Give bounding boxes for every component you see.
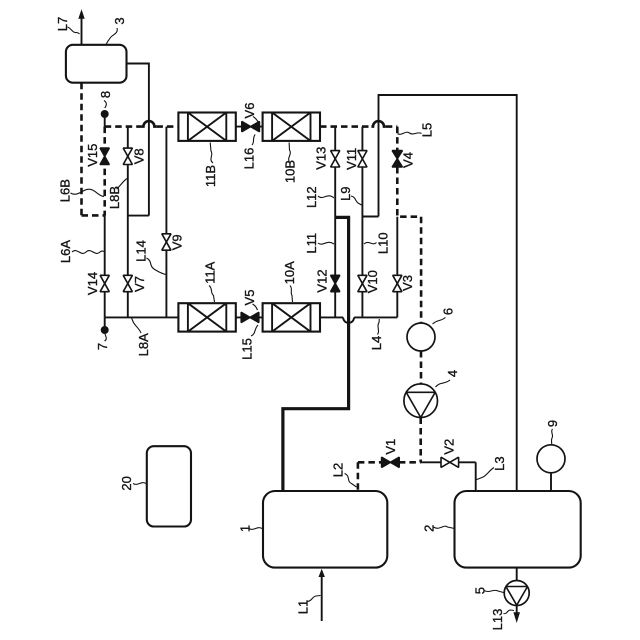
svg-text:L6B: L6B <box>57 179 72 202</box>
label L4 <box>369 319 384 350</box>
label 3 <box>106 17 127 44</box>
svg-text:V10: V10 <box>365 270 380 293</box>
heat exchanger 11A <box>178 303 235 331</box>
label V6 <box>242 103 259 123</box>
arrow L7 out of tank 3 <box>78 9 84 45</box>
wire L3 solid through V2 into tank 2 <box>421 462 476 491</box>
label L1 <box>296 596 321 615</box>
valve V10 (open) <box>358 275 367 291</box>
sensor 9 and stub into tank 2 <box>537 445 565 491</box>
label L3 <box>476 456 508 480</box>
arrow L1 into tank 1 bottom <box>319 569 325 621</box>
svg-text:4: 4 <box>445 370 460 377</box>
heat exchanger 11B <box>178 113 235 141</box>
label L6B <box>57 179 104 202</box>
svg-text:V4: V4 <box>401 152 416 168</box>
svg-text:L1: L1 <box>296 600 311 614</box>
svg-text:L8A: L8A <box>136 333 151 356</box>
label L13 <box>490 609 514 631</box>
valve V5 (closed) <box>241 312 259 322</box>
label L6A <box>58 240 104 263</box>
svg-text:9: 9 <box>545 420 560 427</box>
svg-text:11A: 11A <box>203 261 218 283</box>
valve V15 (closed) <box>100 148 109 164</box>
valve V12 (closed) <box>331 275 340 291</box>
wire L11 through V12 <box>334 217 336 317</box>
svg-text:L14: L14 <box>134 240 149 262</box>
label L5 <box>398 123 435 137</box>
svg-text:L3: L3 <box>492 456 507 470</box>
svg-text:L10: L10 <box>376 232 391 254</box>
svg-text:V13: V13 <box>314 147 329 170</box>
wire L5 dashed header from 10B with hop over tank-2 riser <box>320 125 371 128</box>
valve V8 (open) <box>123 148 132 164</box>
valve V14 (open) <box>100 275 109 291</box>
wire L6B dashed: tank3 bottom, down, right <box>82 83 105 216</box>
tank 2 <box>455 491 581 568</box>
node 7 stub and dot <box>104 317 106 328</box>
wire 11A to V5 to 10A <box>236 316 263 318</box>
label L7 <box>55 17 79 34</box>
label 4 <box>436 370 460 387</box>
svg-text:V6: V6 <box>242 103 257 119</box>
label 5 <box>472 587 503 594</box>
wire L12 through V13 <box>334 127 336 218</box>
wire L6A solid through V14 down to row-2 header <box>104 216 106 318</box>
wire L4: 10A to V3 riser with hop over thick pipe <box>320 316 343 318</box>
svg-text:3: 3 <box>112 17 127 24</box>
svg-text:20: 20 <box>119 476 134 490</box>
label V5 <box>242 290 258 310</box>
pump 5 under tank 2 <box>504 568 529 606</box>
label 1 <box>238 525 263 532</box>
svg-text:L11: L11 <box>304 233 319 254</box>
wire dashed pump 4 down to L2 header <box>419 418 422 463</box>
svg-text:2: 2 <box>422 525 437 532</box>
valve V9 (open) <box>162 234 171 250</box>
label L14 <box>134 240 166 274</box>
tank 1 <box>263 491 387 568</box>
svg-text:V14: V14 <box>85 272 100 295</box>
svg-text:V15: V15 <box>85 144 100 167</box>
svg-text:L4: L4 <box>369 336 384 350</box>
label 11A <box>203 261 218 302</box>
label 9 <box>545 420 560 445</box>
valve V2 (open) <box>441 457 459 467</box>
svg-text:V5: V5 <box>242 290 257 306</box>
wire L8B link to tank-3 riser <box>128 215 149 217</box>
label L10 <box>364 232 391 254</box>
wire L6B dashed through V15 <box>103 127 106 216</box>
label L16 <box>242 135 257 170</box>
valve V11 (open) <box>358 151 367 167</box>
label 7 <box>95 334 110 350</box>
label 10A <box>282 261 297 302</box>
svg-text:L12: L12 <box>304 186 319 208</box>
valve V6 (closed) <box>242 122 260 132</box>
wire L8B/L8A through V8 and V7 <box>127 127 129 318</box>
svg-text:6: 6 <box>441 308 456 315</box>
svg-text:V9: V9 <box>169 234 184 250</box>
wire L5 dashed through V4 down and over to flow meter 6 <box>397 167 421 323</box>
arrow L13 out of pump 5 <box>513 606 520 624</box>
label L2 <box>331 463 357 487</box>
pump 4 <box>404 384 438 418</box>
svg-text:L13: L13 <box>490 609 505 631</box>
svg-text:11B: 11B <box>203 165 218 187</box>
svg-text:L6A: L6A <box>58 240 73 263</box>
svg-text:L15: L15 <box>240 338 255 360</box>
valve V13 (open) <box>331 151 340 167</box>
wire dashed meter 6 to pump 4 <box>420 351 423 384</box>
node 8 stub and dot <box>104 112 106 127</box>
heat exchanger 10A <box>263 303 320 331</box>
label L11 <box>304 233 334 254</box>
valve V4 (closed) <box>392 151 402 167</box>
label 2 <box>422 525 455 532</box>
svg-text:L5: L5 <box>420 123 435 137</box>
wire row-1 dashed header from node 8 to 11B with hop over riser <box>105 125 142 128</box>
wire L14 through V9 <box>165 127 167 318</box>
valve V7 (open) <box>123 275 132 291</box>
wire L9 through V11 <box>361 127 363 217</box>
svg-text:V3: V3 <box>400 275 415 291</box>
tank 3 <box>66 45 127 83</box>
label 11B <box>203 143 218 188</box>
label 6 <box>433 308 456 324</box>
wire L10 through V10 <box>361 217 363 318</box>
svg-text:L7: L7 <box>55 17 70 31</box>
wire link V11/V10 junction to tank-2 riser <box>362 216 378 218</box>
svg-text:V1: V1 <box>383 439 398 455</box>
wire from tank 3 right side down (to L8B link) <box>127 64 149 216</box>
label L8A <box>132 318 152 357</box>
label 8 <box>98 91 113 108</box>
svg-text:V12: V12 <box>315 269 330 292</box>
svg-text:8: 8 <box>98 91 113 98</box>
label L8B <box>107 179 127 210</box>
tank 20 <box>147 446 191 526</box>
flow meter 6 <box>407 323 435 351</box>
svg-text:V11: V11 <box>344 148 359 170</box>
wire tank-2 riser: up, across top, down into tank 2 <box>379 95 517 491</box>
label L15 <box>240 325 259 360</box>
label 10B <box>283 143 298 184</box>
svg-text:V8: V8 <box>132 148 147 164</box>
label 20 <box>119 476 146 490</box>
wire L2 dashed header through V1 <box>358 461 421 464</box>
thick feed pipe from L12/L11 junction down into tank 1 <box>283 217 349 491</box>
label L12 <box>304 186 334 208</box>
wire L2 dashed drop into tank 1 <box>357 462 360 491</box>
svg-text:7: 7 <box>95 343 110 350</box>
row-2 header: node 7 to 11A <box>105 316 179 318</box>
svg-text:L16: L16 <box>242 148 257 170</box>
svg-text:10A: 10A <box>282 261 297 284</box>
svg-text:L2: L2 <box>331 463 346 477</box>
svg-text:10B: 10B <box>283 160 298 183</box>
label L9 <box>338 186 361 205</box>
svg-text:L9: L9 <box>338 186 353 200</box>
heat exchanger 10B <box>263 113 320 141</box>
valve V1 (closed) <box>382 457 400 467</box>
valve V3 (open) <box>393 275 402 291</box>
svg-text:L8B: L8B <box>107 186 122 209</box>
svg-text:V2: V2 <box>441 439 456 455</box>
wire 11B to V6 to 10B <box>236 126 263 128</box>
svg-text:V7: V7 <box>132 276 147 292</box>
